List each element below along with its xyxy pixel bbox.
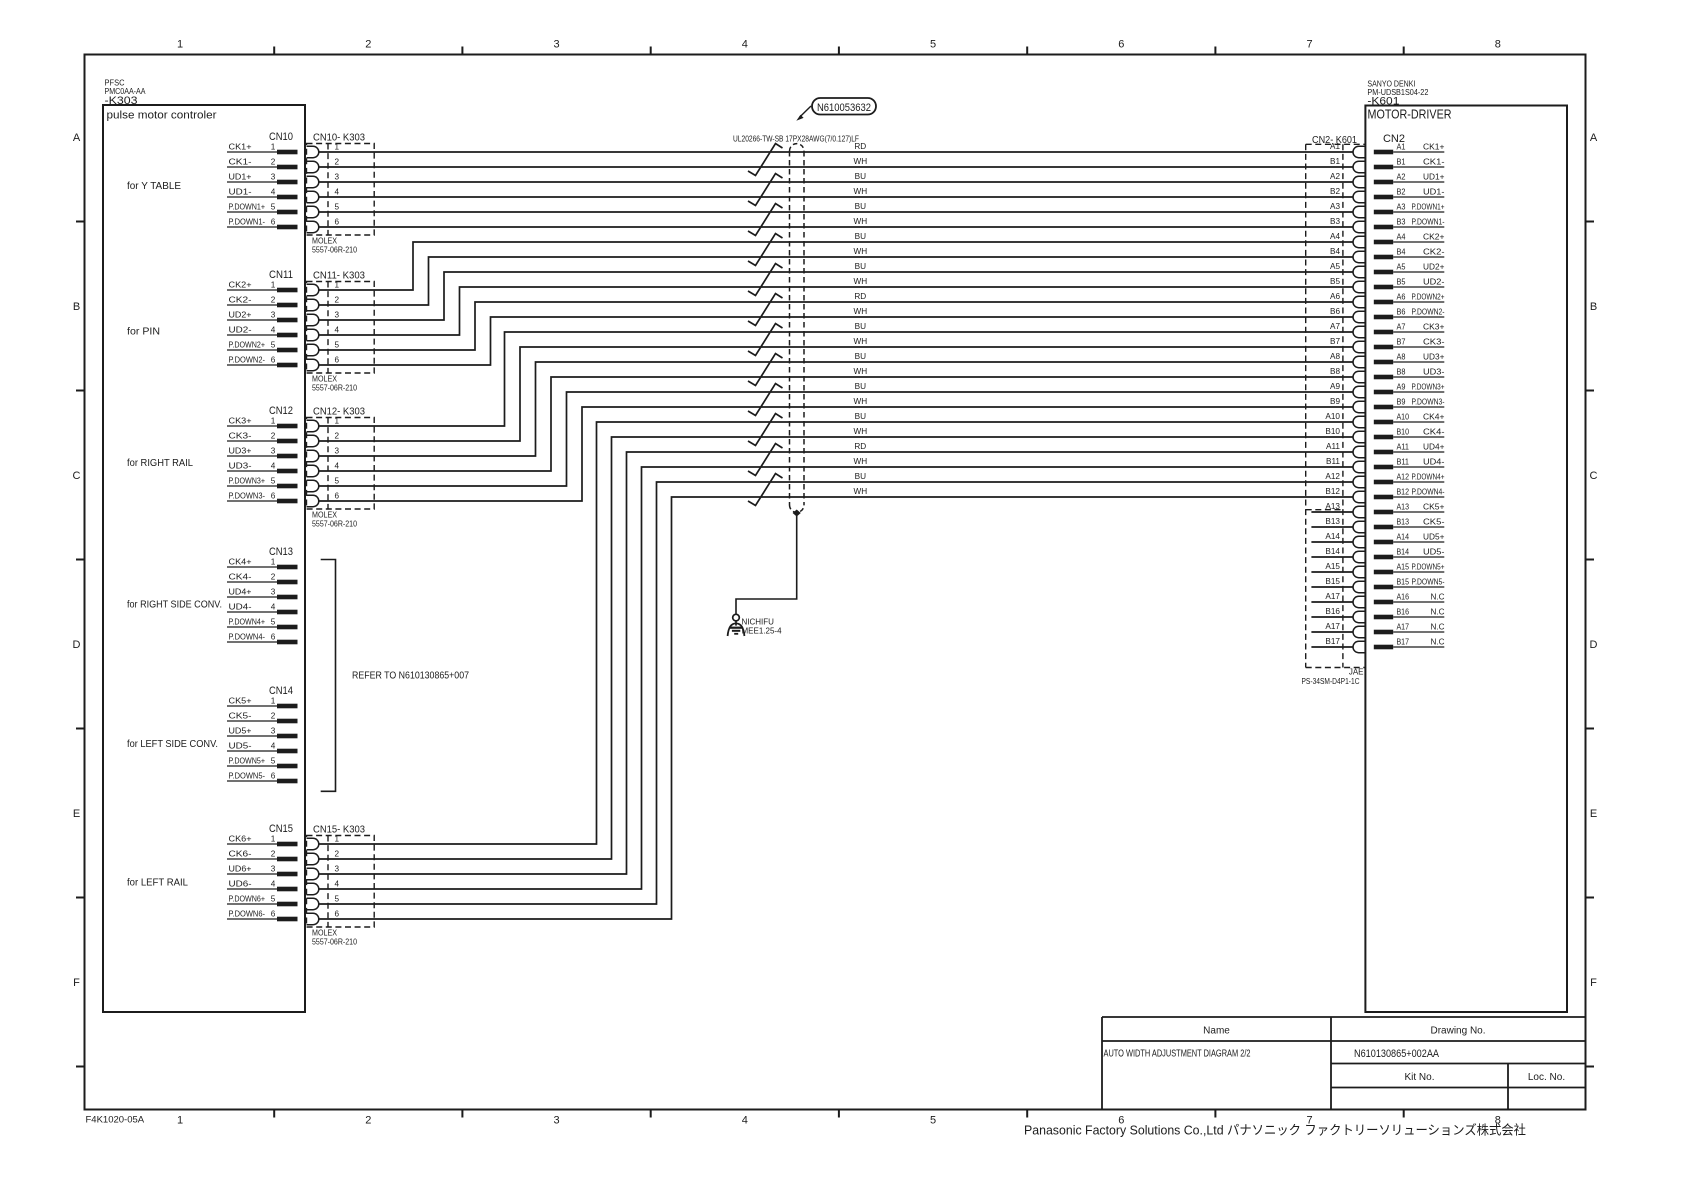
wire CN11-6 to CN2-B6 (WH) <box>319 317 1353 365</box>
svg-text:3: 3 <box>553 1115 559 1127</box>
CN2 pin A7 (CK3+) <box>1374 323 1445 335</box>
svg-text:Panasonic Factory Solutions Co: Panasonic Factory Solutions Co.,Ltd パナソニ… <box>1024 1123 1526 1138</box>
CN2 pin A4 (CK2+) <box>1374 233 1445 245</box>
svg-text:5: 5 <box>335 341 340 350</box>
svg-text:WH: WH <box>853 487 867 496</box>
svg-text:1: 1 <box>335 835 340 844</box>
svg-text:4: 4 <box>271 880 276 889</box>
svg-text:WH: WH <box>853 337 867 346</box>
svg-text:N.C: N.C <box>1431 638 1445 647</box>
svg-text:3: 3 <box>335 447 340 456</box>
svg-text:N.C: N.C <box>1431 623 1445 632</box>
twisted-pair symbol pair 11 <box>748 444 783 476</box>
svg-text:A11: A11 <box>1397 443 1410 452</box>
svg-text:B12: B12 <box>1325 487 1340 496</box>
connector header CN12-K303 (MOLEX 5557-06R-210) <box>307 406 375 529</box>
svg-text:6: 6 <box>1118 39 1124 51</box>
wire CN12-6 to CN2-B9 (WH) <box>319 407 1353 501</box>
svg-text:A17: A17 <box>1397 623 1410 632</box>
wire CN15-1 to CN2-A10 (BU) <box>319 422 1353 844</box>
svg-text:E: E <box>1590 808 1597 820</box>
svg-text:for LEFT RAIL: for LEFT RAIL <box>127 877 188 889</box>
CN2 pin A16 (N.C) <box>1374 593 1445 605</box>
CN2 pin A17 (N.C) <box>1374 623 1445 635</box>
wire CN15-5 to CN2-A12 (BU) <box>319 482 1353 904</box>
svg-text:P.DOWN1+: P.DOWN1+ <box>1412 203 1445 212</box>
svg-text:5557-06R-210: 5557-06R-210 <box>312 246 357 255</box>
svg-text:UD4-: UD4- <box>229 603 252 612</box>
svg-text:P.DOWN3-: P.DOWN3- <box>229 492 266 501</box>
svg-text:1: 1 <box>271 281 276 290</box>
svg-text:-K601: -K601 <box>1367 95 1399 107</box>
svg-text:B10: B10 <box>1397 428 1410 437</box>
K601 designation labels <box>1367 80 1451 146</box>
svg-text:BU: BU <box>855 382 866 391</box>
svg-text:UD5+: UD5+ <box>1423 533 1445 542</box>
svg-text:5: 5 <box>271 895 276 904</box>
svg-text:for Y TABLE: for Y TABLE <box>127 180 181 192</box>
connector CN13 pin rows <box>227 546 298 644</box>
svg-text:P.DOWN6-: P.DOWN6- <box>229 910 266 919</box>
svg-text:MOLEX: MOLEX <box>312 929 338 938</box>
svg-text:P.DOWN5+: P.DOWN5+ <box>1412 563 1445 572</box>
svg-text:B11: B11 <box>1397 458 1410 467</box>
CN2 pin A12 (P.DOWN4+) <box>1374 473 1445 485</box>
svg-text:MEE1.25-4: MEE1.25-4 <box>742 627 783 636</box>
svg-text:6: 6 <box>335 356 340 365</box>
svg-text:A4: A4 <box>1330 232 1340 241</box>
svg-text:1: 1 <box>271 417 276 426</box>
wire CN12-2 to CN2-B7 (WH) <box>319 347 1353 441</box>
svg-text:CK2-: CK2- <box>1423 248 1445 257</box>
svg-text:5: 5 <box>271 618 276 627</box>
svg-text:A2: A2 <box>1397 173 1406 182</box>
CN2 pin B17 (N.C) <box>1374 638 1445 650</box>
svg-text:WH: WH <box>853 277 867 286</box>
border frame <box>85 55 1586 1110</box>
svg-text:CN15: CN15 <box>269 823 293 835</box>
CN2 pin A13 (CK5+) <box>1374 503 1445 515</box>
svg-text:WH: WH <box>853 367 867 376</box>
CN2 pin A15 (P.DOWN5+) <box>1374 563 1445 575</box>
svg-text:UD2+: UD2+ <box>229 311 252 320</box>
wire colour labels <box>853 142 867 496</box>
svg-text:A1: A1 <box>1330 142 1340 151</box>
svg-text:B1: B1 <box>1330 157 1340 166</box>
svg-text:3: 3 <box>271 727 276 736</box>
CN2 pin B14 (UD5-) <box>1374 548 1445 560</box>
svg-text:4: 4 <box>335 462 340 471</box>
svg-text:2: 2 <box>365 1115 371 1127</box>
svg-text:WH: WH <box>853 217 867 226</box>
twisted-pair symbol pair 7 <box>748 324 783 356</box>
twisted-pair symbol pair 9 <box>748 384 783 416</box>
CN2 pin A5 (UD2+) <box>1374 263 1445 275</box>
svg-text:A9: A9 <box>1330 382 1340 391</box>
CN2 pin A6 (P.DOWN2+) <box>1374 293 1445 305</box>
svg-text:CN10: CN10 <box>269 131 293 143</box>
twisted-pair symbol pair 2 <box>748 174 783 206</box>
svg-text:2: 2 <box>271 573 276 582</box>
CN2 pin B2 (UD1-) <box>1374 188 1445 200</box>
wire CN11-2 to CN2-B4 (WH) <box>319 257 1353 305</box>
svg-text:6: 6 <box>335 910 340 919</box>
wire CN12-4 to CN2-B8 (WH) <box>319 377 1353 471</box>
svg-text:B3: B3 <box>1330 217 1340 226</box>
svg-text:WH: WH <box>853 187 867 196</box>
svg-text:5: 5 <box>930 1115 936 1127</box>
svg-text:6: 6 <box>271 910 276 919</box>
CN2 pin B5 (UD2-) <box>1374 278 1445 290</box>
svg-text:for PIN: for PIN <box>127 326 160 338</box>
svg-text:B5: B5 <box>1397 278 1406 287</box>
CN2 pin A10 (CK4+) <box>1374 413 1445 425</box>
svg-text:B5: B5 <box>1330 277 1340 286</box>
svg-text:Name: Name <box>1203 1026 1230 1037</box>
svg-text:2: 2 <box>271 712 276 721</box>
K303 designation labels <box>105 79 217 122</box>
svg-text:A16: A16 <box>1397 593 1410 602</box>
svg-text:WH: WH <box>853 427 867 436</box>
svg-text:CK1+: CK1+ <box>1423 143 1445 152</box>
svg-text:B17: B17 <box>1397 638 1410 647</box>
svg-text:A6: A6 <box>1397 293 1406 302</box>
svg-text:C: C <box>1590 470 1598 482</box>
bracket REFER TO note for CN13/CN14 <box>321 560 469 792</box>
svg-text:1: 1 <box>271 835 276 844</box>
twisted-pair symbol pair 5 <box>748 264 783 296</box>
wire CN15-2 to CN2-B10 (WH) <box>319 437 1353 859</box>
svg-text:1: 1 <box>335 417 340 426</box>
svg-text:UD5+: UD5+ <box>229 727 252 736</box>
connector CN15 pin rows <box>227 823 298 921</box>
svg-text:F: F <box>73 977 80 989</box>
svg-text:B6: B6 <box>1330 307 1340 316</box>
svg-text:RD: RD <box>854 142 866 151</box>
svg-text:AUTO WIDTH ADJUSTMENT DIAGRAM: AUTO WIDTH ADJUSTMENT DIAGRAM 2/2 <box>1104 1049 1251 1060</box>
svg-text:B8: B8 <box>1397 368 1406 377</box>
svg-text:5: 5 <box>335 895 340 904</box>
CN2 pin B10 (CK4-) <box>1374 428 1445 440</box>
svg-text:A5: A5 <box>1397 263 1406 272</box>
svg-text:5: 5 <box>930 39 936 51</box>
svg-text:6: 6 <box>271 218 276 227</box>
svg-text:6: 6 <box>271 356 276 365</box>
svg-text:UD1+: UD1+ <box>229 173 252 182</box>
wire CN11-5 to CN2-A6 (RD) <box>319 302 1353 350</box>
svg-text:P.DOWN1-: P.DOWN1- <box>1412 218 1445 227</box>
svg-text:CK5+: CK5+ <box>229 697 252 706</box>
svg-text:5557-06R-210: 5557-06R-210 <box>312 520 357 529</box>
svg-text:3: 3 <box>335 311 340 320</box>
svg-text:E: E <box>73 808 80 820</box>
svg-text:Loc. No.: Loc. No. <box>1528 1072 1565 1083</box>
svg-text:A17: A17 <box>1325 592 1340 601</box>
svg-text:MOLEX: MOLEX <box>312 375 338 384</box>
CN2 pin A8 (UD3+) <box>1374 353 1445 365</box>
svg-text:B13: B13 <box>1325 517 1340 526</box>
svg-text:5: 5 <box>271 203 276 212</box>
svg-text:P.DOWN1+: P.DOWN1+ <box>229 203 266 212</box>
connector header CN15-K303 (MOLEX 5557-06R-210) <box>307 824 375 947</box>
svg-text:4: 4 <box>271 742 276 751</box>
svg-text:B3: B3 <box>1397 218 1406 227</box>
svg-text:P.DOWN1-: P.DOWN1- <box>229 218 266 227</box>
svg-text:A12: A12 <box>1397 473 1410 482</box>
svg-text:B15: B15 <box>1397 578 1410 587</box>
svg-text:P.DOWN5-: P.DOWN5- <box>1412 578 1445 587</box>
svg-text:2: 2 <box>271 296 276 305</box>
svg-text:5557-06R-210: 5557-06R-210 <box>312 384 357 393</box>
wire CN10-2 to CN2-B1 (WH) <box>319 166 1353 168</box>
svg-text:B11: B11 <box>1326 457 1340 466</box>
svg-text:D: D <box>1590 639 1598 651</box>
svg-text:P.DOWN5-: P.DOWN5- <box>229 772 266 781</box>
svg-text:B1: B1 <box>1397 158 1406 167</box>
svg-text:N.C: N.C <box>1431 593 1445 602</box>
wire CN11-4 to CN2-B5 (WH) <box>319 287 1353 335</box>
connector header CN11-K303 (MOLEX 5557-06R-210) <box>307 270 375 393</box>
svg-text:CN12: CN12 <box>269 405 293 417</box>
svg-text:A14: A14 <box>1397 533 1410 542</box>
svg-text:for LEFT SIDE CONV.: for LEFT SIDE CONV. <box>127 738 218 750</box>
svg-text:pulse motor controler: pulse motor controler <box>107 110 217 122</box>
svg-text:REFER TO N610130865+007: REFER TO N610130865+007 <box>352 670 469 682</box>
svg-text:7: 7 <box>1306 39 1312 51</box>
wire CN10-5 to CN2-A3 (BU) <box>319 211 1353 213</box>
svg-text:2: 2 <box>271 850 276 859</box>
svg-text:UD4+: UD4+ <box>229 588 252 597</box>
svg-text:A9: A9 <box>1397 383 1406 392</box>
svg-text:5557-06R-210: 5557-06R-210 <box>312 938 357 947</box>
CN2 pin B1 (CK1-) <box>1374 158 1445 170</box>
svg-text:for RIGHT RAIL: for RIGHT RAIL <box>127 457 193 469</box>
svg-text:B4: B4 <box>1330 247 1340 256</box>
svg-text:P.DOWN2+: P.DOWN2+ <box>1412 293 1445 302</box>
svg-text:3: 3 <box>271 865 276 874</box>
svg-text:A8: A8 <box>1397 353 1406 362</box>
svg-text:A15: A15 <box>1397 563 1410 572</box>
svg-text:A: A <box>1590 132 1598 144</box>
svg-text:P.DOWN3-: P.DOWN3- <box>1412 398 1445 407</box>
connector CN10 pin rows <box>227 131 298 229</box>
wire CN11-1 to CN2-A4 (BU) <box>319 242 1353 290</box>
CN2 pin A11 (UD4+) <box>1374 443 1445 455</box>
svg-text:P.DOWN5+: P.DOWN5+ <box>229 757 266 766</box>
svg-text:WH: WH <box>853 247 867 256</box>
svg-text:B14: B14 <box>1325 547 1340 556</box>
svg-text:A: A <box>73 132 81 144</box>
svg-text:PS-34SM-D4P1-1C: PS-34SM-D4P1-1C <box>1302 677 1360 686</box>
CN2 pin A14 (UD5+) <box>1374 533 1445 545</box>
wire CN10-4 to CN2-B2 (WH) <box>319 196 1353 198</box>
svg-text:B2: B2 <box>1397 188 1406 197</box>
CN2 pin A3 (P.DOWN1+) <box>1374 203 1445 215</box>
connector CN12 pin rows <box>227 405 298 503</box>
svg-text:UD4+: UD4+ <box>1423 443 1445 452</box>
svg-text:UD2-: UD2- <box>229 326 252 335</box>
svg-text:B4: B4 <box>1397 248 1406 257</box>
CN2 pin A9 (P.DOWN3+) <box>1374 383 1445 395</box>
svg-text:MOTOR-DRIVER: MOTOR-DRIVER <box>1368 108 1452 122</box>
svg-text:A10: A10 <box>1325 412 1340 421</box>
svg-text:F: F <box>1590 977 1597 989</box>
svg-text:CK5-: CK5- <box>229 712 252 721</box>
svg-text:A7: A7 <box>1330 322 1340 331</box>
svg-text:UD6+: UD6+ <box>229 865 252 874</box>
CN2 pin B12 (P.DOWN4-) <box>1374 488 1445 500</box>
svg-text:3: 3 <box>271 173 276 182</box>
svg-text:UD5-: UD5- <box>229 742 252 751</box>
CN2 pin B11 (UD4-) <box>1374 458 1445 470</box>
svg-text:BU: BU <box>855 232 866 241</box>
CN2 pin B15 (P.DOWN5-) <box>1374 578 1445 590</box>
connector header CN10-K303 (MOLEX 5557-06R-210) <box>307 132 375 255</box>
svg-text:5: 5 <box>271 757 276 766</box>
svg-text:6: 6 <box>271 633 276 642</box>
svg-text:B10: B10 <box>1325 427 1340 436</box>
connector CN14 pin rows <box>227 685 298 783</box>
svg-text:MOLEX: MOLEX <box>312 511 338 520</box>
svg-text:CK2-: CK2- <box>229 296 252 305</box>
svg-text:4: 4 <box>271 188 276 197</box>
svg-text:UD3+: UD3+ <box>229 447 252 456</box>
CN2 pin A1 (CK1+) <box>1374 143 1445 155</box>
svg-text:BU: BU <box>855 412 866 421</box>
svg-text:BU: BU <box>855 352 866 361</box>
svg-text:RD: RD <box>854 442 866 451</box>
CN2 pin B16 (N.C) <box>1374 608 1445 620</box>
CN2 pin A2 (UD1+) <box>1374 173 1445 185</box>
svg-text:A8: A8 <box>1330 352 1340 361</box>
svg-text:B6: B6 <box>1397 308 1406 317</box>
svg-text:P.DOWN3+: P.DOWN3+ <box>1412 383 1445 392</box>
svg-text:CK4+: CK4+ <box>229 558 252 567</box>
svg-text:3: 3 <box>271 311 276 320</box>
svg-text:BU: BU <box>855 472 866 481</box>
shield drain wire <box>736 514 797 614</box>
svg-text:3: 3 <box>271 588 276 597</box>
svg-text:A14: A14 <box>1325 532 1340 541</box>
svg-text:RD: RD <box>854 292 866 301</box>
svg-text:CK2+: CK2+ <box>229 281 252 290</box>
svg-text:CK1-: CK1- <box>229 158 252 167</box>
svg-text:A7: A7 <box>1397 323 1406 332</box>
ring terminal NICHIFU MEE1.25-4 <box>728 614 782 636</box>
svg-text:P.DOWN4+: P.DOWN4+ <box>229 618 266 627</box>
svg-text:BU: BU <box>855 322 866 331</box>
CN2 pin B4 (CK2-) <box>1374 248 1445 260</box>
connector CN11 pin rows <box>227 269 298 367</box>
svg-text:1: 1 <box>335 281 340 290</box>
svg-text:B16: B16 <box>1397 608 1410 617</box>
pulse motor controller K303 box <box>103 105 305 1012</box>
MOTOR-DRIVER K601 box <box>1365 106 1567 1013</box>
svg-text:CK3+: CK3+ <box>229 417 252 426</box>
twisted-pair symbol pair 8 <box>748 354 783 386</box>
svg-text:CN11- K303: CN11- K303 <box>313 270 365 282</box>
svg-text:NICHIFU: NICHIFU <box>742 618 775 627</box>
cable sheath symbol <box>790 144 805 513</box>
svg-text:1: 1 <box>271 143 276 152</box>
wire CN11-3 to CN2-A5 (BU) <box>319 272 1353 320</box>
twisted-pair symbol pair 1 <box>748 144 783 176</box>
svg-text:2: 2 <box>271 432 276 441</box>
svg-text:4: 4 <box>271 603 276 612</box>
svg-text:B7: B7 <box>1330 337 1340 346</box>
svg-text:1: 1 <box>335 143 340 152</box>
CN2 pin B9 (P.DOWN3-) <box>1374 398 1445 410</box>
svg-text:3: 3 <box>335 865 340 874</box>
svg-text:B17: B17 <box>1325 637 1340 646</box>
balloon part number N610053632 <box>796 98 876 121</box>
svg-text:CN11: CN11 <box>269 269 293 281</box>
shield junction dot <box>793 510 801 517</box>
svg-text:CK4+: CK4+ <box>1423 413 1445 422</box>
svg-text:4: 4 <box>335 880 340 889</box>
svg-text:P.DOWN4-: P.DOWN4- <box>1412 488 1445 497</box>
svg-text:A5: A5 <box>1330 262 1340 271</box>
svg-text:B14: B14 <box>1397 548 1410 557</box>
wire CN10-6 to CN2-B3 (WH) <box>319 226 1353 228</box>
svg-text:C: C <box>73 470 81 482</box>
svg-text:BU: BU <box>855 172 866 181</box>
svg-text:4: 4 <box>335 326 340 335</box>
svg-text:1: 1 <box>271 697 276 706</box>
svg-text:UD1-: UD1- <box>1423 188 1445 197</box>
wire CN10-1 to CN2-A1 (RD) <box>319 151 1353 153</box>
svg-text:6: 6 <box>335 218 340 227</box>
svg-text:CK5+: CK5+ <box>1423 503 1445 512</box>
svg-text:4: 4 <box>271 326 276 335</box>
svg-text:A15: A15 <box>1325 562 1340 571</box>
svg-text:CN14: CN14 <box>269 685 293 697</box>
svg-text:5: 5 <box>335 203 340 212</box>
svg-text:B9: B9 <box>1330 397 1340 406</box>
CN2 pin B6 (P.DOWN2-) <box>1374 308 1445 320</box>
svg-text:6: 6 <box>271 492 276 501</box>
twisted-pair symbol pair 12 <box>748 474 783 506</box>
svg-text:UD2+: UD2+ <box>1423 263 1445 272</box>
wire CN10-3 to CN2-A2 (BU) <box>319 181 1353 183</box>
svg-text:B2: B2 <box>1330 187 1340 196</box>
svg-text:CK1+: CK1+ <box>229 143 252 152</box>
svg-text:WH: WH <box>853 397 867 406</box>
svg-text:CN10- K303: CN10- K303 <box>313 132 365 144</box>
CN2 pin B13 (CK5-) <box>1374 518 1445 530</box>
svg-text:B12: B12 <box>1397 488 1410 497</box>
svg-text:A2: A2 <box>1330 172 1340 181</box>
svg-text:WH: WH <box>853 157 867 166</box>
svg-text:6: 6 <box>335 492 340 501</box>
svg-text:N610053632: N610053632 <box>817 102 871 114</box>
svg-text:Drawing No.: Drawing No. <box>1430 1026 1485 1037</box>
svg-text:3: 3 <box>553 39 559 51</box>
wire CN12-1 to CN2-A7 (BU) <box>319 332 1353 426</box>
svg-text:B8: B8 <box>1330 367 1340 376</box>
function labels <box>127 180 222 889</box>
svg-text:WH: WH <box>853 457 867 466</box>
svg-text:CK3-: CK3- <box>1423 338 1445 347</box>
svg-text:3: 3 <box>271 447 276 456</box>
wire CN12-3 to CN2-A8 (BU) <box>319 362 1353 456</box>
svg-text:4: 4 <box>742 39 748 51</box>
svg-text:A13: A13 <box>1397 503 1410 512</box>
svg-text:UD3-: UD3- <box>229 462 252 471</box>
svg-text:B: B <box>1590 301 1597 313</box>
svg-text:A1: A1 <box>1397 143 1406 152</box>
svg-text:P.DOWN2-: P.DOWN2- <box>1412 308 1445 317</box>
